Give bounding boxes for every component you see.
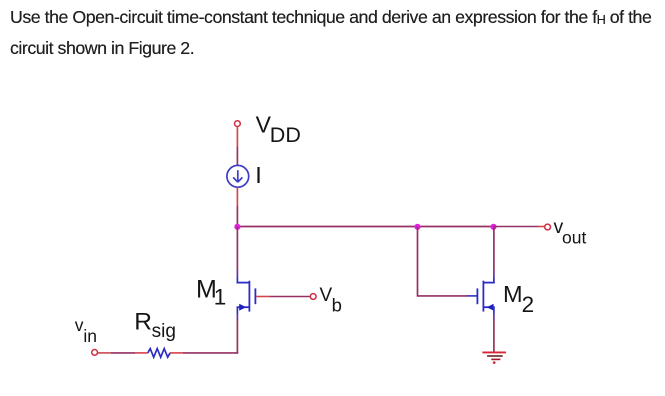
wire M2 source to ground <box>493 307 495 315</box>
wire rail junction to M2 gate (left leg) <box>417 227 419 297</box>
transistor M1 <box>237 281 256 312</box>
node junction right <box>490 224 496 230</box>
svg-text:in: in <box>83 326 97 346</box>
svg-text:R: R <box>134 309 152 336</box>
svg-text:1: 1 <box>214 285 227 310</box>
wire top rail <box>237 226 493 228</box>
node junction left <box>234 224 240 230</box>
svg-text:DD: DD <box>270 123 301 147</box>
terminal VDD <box>235 121 241 127</box>
svg-text:out: out <box>562 228 586 248</box>
wire VDD terminal to current source <box>236 127 238 147</box>
node junction middle <box>414 224 420 230</box>
svg-text:2: 2 <box>522 292 535 317</box>
current source I1 <box>227 165 249 187</box>
wire rail to vout terminal <box>494 226 539 228</box>
resistor Rsig <box>148 349 170 358</box>
wire M1 gate to vb terminal <box>256 296 270 298</box>
svg-text:M: M <box>503 281 523 307</box>
wire M1 source down <box>236 307 238 315</box>
transistor M2 <box>477 281 494 312</box>
terminal vb <box>310 294 316 300</box>
terminal vin <box>92 350 98 356</box>
svg-text:b: b <box>332 294 342 315</box>
wire rail to M1 drain <box>236 227 238 271</box>
wire rail to M2 drain <box>493 227 495 272</box>
svg-text:V: V <box>320 285 333 306</box>
svg-text:sig: sig <box>152 321 176 342</box>
wire current source to rail <box>236 187 238 206</box>
ground <box>482 352 506 364</box>
svg-text:I: I <box>255 162 262 188</box>
terminal vout <box>545 224 551 230</box>
wire M1 source to resistor <box>183 352 238 354</box>
wire resistor to vin terminal <box>135 352 148 354</box>
